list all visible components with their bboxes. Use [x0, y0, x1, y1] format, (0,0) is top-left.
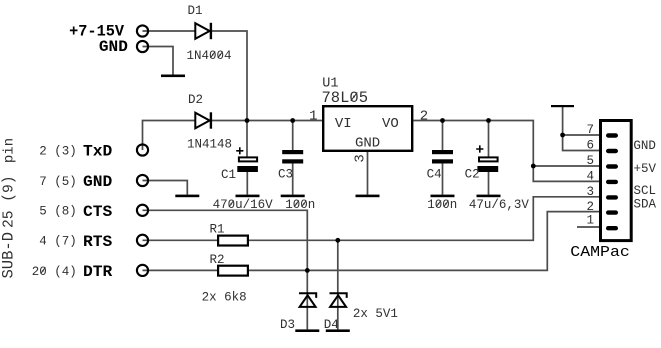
- svg-text:SCL: SCL: [634, 184, 657, 198]
- svg-text:7 (5): 7 (5): [39, 175, 77, 189]
- svg-text:pin: pin: [1, 138, 17, 163]
- svg-text:C4: C4: [427, 168, 442, 182]
- svg-text:1N4148: 1N4148: [187, 138, 232, 152]
- svg-text:R2: R2: [210, 253, 225, 267]
- svg-text:4 (7): 4 (7): [39, 235, 77, 249]
- svg-text:GND: GND: [355, 136, 380, 152]
- svg-text:1: 1: [586, 214, 594, 228]
- svg-text:+5V: +5V: [634, 162, 657, 176]
- svg-text:47u/6,3V: 47u/6,3V: [469, 198, 530, 212]
- svg-text:R1: R1: [210, 223, 225, 237]
- svg-text:D1: D1: [188, 4, 203, 18]
- svg-text:2x 5V1: 2x 5V1: [353, 307, 398, 321]
- svg-text:GND: GND: [83, 173, 112, 191]
- svg-text:D2: D2: [188, 93, 203, 107]
- svg-text:CAMPac: CAMPac: [570, 244, 630, 261]
- svg-text:6: 6: [586, 139, 594, 153]
- svg-text:VO: VO: [382, 116, 399, 132]
- svg-text:3: 3: [352, 154, 368, 162]
- svg-text:CTS: CTS: [83, 203, 113, 221]
- svg-text:5: 5: [586, 154, 594, 168]
- svg-text:470u/16V: 470u/16V: [213, 198, 274, 212]
- svg-text:100n: 100n: [427, 198, 457, 212]
- svg-text:2: 2: [420, 108, 428, 124]
- svg-text:3: 3: [586, 185, 594, 199]
- svg-text:5 (8): 5 (8): [39, 205, 77, 219]
- svg-text:20 (4): 20 (4): [32, 265, 77, 279]
- svg-text:VI: VI: [335, 116, 352, 132]
- svg-text:SDA: SDA: [634, 198, 657, 212]
- svg-text:2 (3): 2 (3): [39, 144, 77, 158]
- svg-text:C1: C1: [221, 168, 236, 182]
- svg-text:25 (9): 25 (9): [1, 175, 17, 228]
- svg-text:1: 1: [309, 108, 317, 124]
- svg-text:1N4004: 1N4004: [187, 49, 232, 63]
- svg-text:D4: D4: [324, 318, 339, 332]
- svg-text:C3: C3: [278, 168, 293, 182]
- svg-text:GND: GND: [99, 38, 128, 56]
- svg-text:2x 6k8: 2x 6k8: [202, 291, 247, 305]
- svg-text:78L05: 78L05: [322, 89, 369, 107]
- svg-text:100n: 100n: [285, 198, 315, 212]
- svg-text:TxD: TxD: [83, 143, 112, 161]
- svg-text:7: 7: [586, 123, 594, 137]
- svg-text:DTR: DTR: [83, 263, 113, 281]
- svg-text:SUB-D: SUB-D: [0, 232, 17, 279]
- svg-text:D3: D3: [280, 318, 295, 332]
- svg-text:C2: C2: [465, 168, 480, 182]
- svg-text:4: 4: [586, 169, 594, 183]
- svg-text:GND: GND: [633, 139, 656, 153]
- svg-text:RTS: RTS: [83, 233, 113, 251]
- svg-text:2: 2: [586, 200, 594, 214]
